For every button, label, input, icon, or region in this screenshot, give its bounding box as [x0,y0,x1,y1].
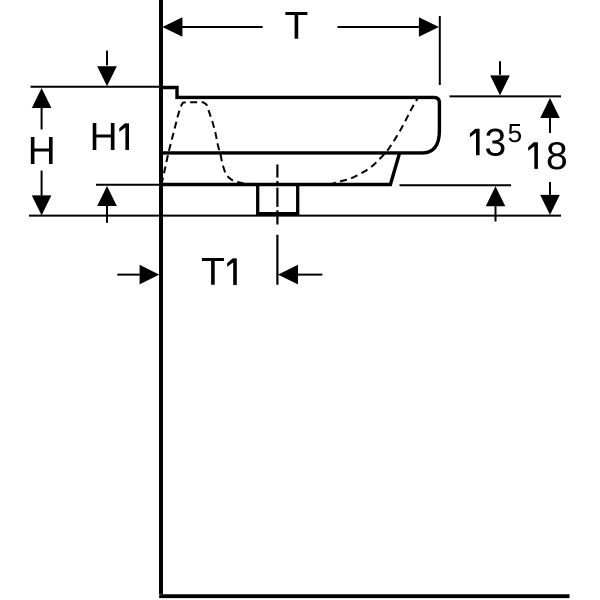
floor / bottom border [159,594,569,598]
drain centerline (dash-dot) [276,165,278,285]
svg-text:5: 5 [508,118,522,148]
svg-text:8: 8 [546,135,568,178]
T1 dimension (bottom) [117,274,139,276]
svg-text:3: 3 [485,121,507,164]
dashed bowl interior profile [162,98,419,185]
T dimension (top) [182,26,419,28]
svg-text:H: H [28,130,56,173]
thin reference lines [31,86,161,88]
H dimension [32,88,52,108]
svg-text:H: H [90,116,118,159]
H1 dimension [106,51,108,66]
18 dimension [540,98,560,118]
drain trap box [258,185,298,214]
basin outline: top edge, step, top surface, right edge, lower curve, mid line [159,88,439,153]
13(5) dimension [499,61,501,75]
basin underside: slope and bottom [160,153,400,185]
svg-text:T: T [284,5,308,48]
wall line [159,0,163,594]
svg-text:T: T [201,251,225,294]
